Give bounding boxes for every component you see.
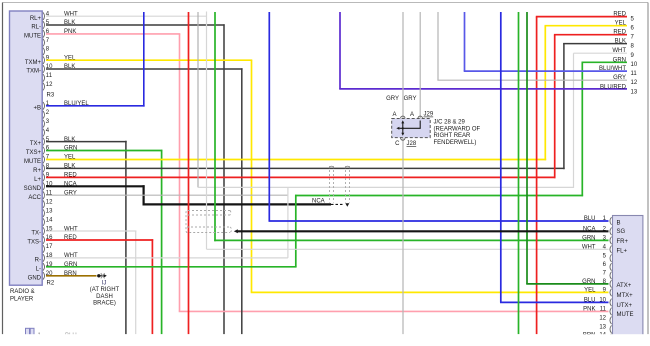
svg-text:GRY: GRY [386, 96, 399, 102]
svg-text:R-: R- [35, 257, 41, 263]
shield dashes upper pair A [329, 166, 331, 203]
right connector pin 14 (BRN) [610, 334, 612, 342]
svg-text:BLU: BLU [584, 216, 596, 222]
svg-text:GRY: GRY [613, 75, 626, 81]
node NCA end arrow [345, 203, 349, 207]
wire BLU/YEL R2-1 +B horizontal [46, 105, 145, 107]
wire WHT vertical x=573.5 [573, 53, 575, 188]
wire BLK R2-5 TX+ horizontal [46, 141, 127, 143]
svg-text:BLU/WHT: BLU/WHT [599, 66, 626, 72]
connector R2 pin 16 TXS- (RED) [43, 236, 45, 244]
wire GRY vertical x=438 [437, 12, 439, 80]
svg-text:R3: R3 [47, 93, 55, 99]
svg-text:13: 13 [599, 324, 606, 330]
wire BLU/YEL vertical to top [143, 12, 145, 107]
wire GRN long horizontal y=240.4 to right pin 3 [214, 239, 608, 241]
connector R2 pin 7 MUTE (YEL) [43, 156, 45, 164]
svg-text:13: 13 [631, 89, 638, 95]
svg-text:11: 11 [631, 71, 638, 77]
wire YEL to top right pin 6 [545, 25, 628, 27]
svg-text:R+: R+ [33, 168, 41, 174]
svg-text:BLU: BLU [584, 297, 596, 303]
wire BLU/RED to top right pin 13 [339, 88, 627, 90]
wire GRN vertical x=295.8 [295, 195, 297, 267]
svg-text:FR+: FR+ [617, 239, 629, 245]
svg-text:GND: GND [28, 275, 42, 281]
svg-text:MTX+: MTX+ [617, 293, 634, 299]
wire GRN R2-6 vertical x=161.6 [161, 150, 163, 335]
svg-text:BLU/RED: BLU/RED [600, 85, 627, 91]
shield twist tick A [329, 166, 333, 168]
svg-text:NCA: NCA [312, 199, 325, 205]
svg-text:10: 10 [631, 62, 638, 68]
wire GRY R2-11 ACC [46, 194, 288, 196]
wire BLK R3-10 TXM- horizontal [46, 68, 243, 70]
svg-text:A: A [392, 112, 396, 118]
wire YEL to right pin 9 [251, 291, 609, 293]
svg-text:14: 14 [46, 217, 53, 223]
right connector pin 12 (empty) [610, 317, 612, 325]
right connector pin 4 (WHT) [610, 246, 612, 254]
svg-text:YEL: YEL [584, 287, 596, 293]
connector R2 pin 15 TX- (WHT) [43, 227, 45, 235]
wire GRN horizontal y=195.5 [295, 195, 583, 197]
connector R3 pin 12 (empty) [43, 83, 45, 91]
svg-text:FL+: FL+ [617, 249, 628, 255]
wire RED R2-16 TXS- horizontal [46, 239, 153, 241]
wire GRY vertical x=420.2 to J/C [419, 12, 421, 119]
wire RED to top right pin 7 [554, 34, 627, 36]
svg-text:TX+: TX+ [30, 141, 42, 147]
wire RED top right pin 5 horizontal [536, 16, 627, 18]
wire NCA dashed stub [331, 203, 344, 205]
svg-text:RIGHT REAR: RIGHT REAR [434, 133, 472, 139]
page right border [647, 3, 649, 335]
connector R2 pin 19 L- (GRN) [43, 263, 45, 271]
svg-text:MUTE: MUTE [24, 159, 41, 165]
svg-text:RL-: RL- [31, 25, 41, 31]
connector R2 pin 6 TXS+ (GRN) [43, 147, 45, 155]
wire BLU vertical x=500.8 [500, 12, 502, 302]
svg-text:RADIO &: RADIO & [10, 289, 35, 295]
wire GRY vertical x=198 from top [197, 12, 199, 187]
connector R3 pin 10 TXM- (BLK) [43, 65, 45, 73]
wire WHT long horizontal y=249.3 to right pin 4 [207, 248, 609, 250]
right connector pin 9 (YEL) [610, 289, 612, 297]
connector R2 pin 20 GND (BRN) [43, 272, 45, 280]
wire WHT long horizontal y=187.4 [198, 186, 574, 188]
svg-text:B: B [617, 221, 621, 227]
right connector pin 1 (BLU) [610, 217, 612, 225]
wire GRN vertical x=215 from top [214, 12, 216, 241]
right connector pin 8 (GRN) [610, 280, 612, 288]
wire RED vertical x=554.7 [554, 35, 556, 179]
connector R2 pin 5 TX+ (BLK) [43, 138, 45, 146]
svg-text:A: A [410, 112, 414, 118]
wire GRY to top right pin 12 [437, 79, 627, 81]
svg-text:J28: J28 [407, 141, 417, 147]
wire RED vertical x=188.5 full height [188, 12, 190, 334]
wire BLU/WHT to top right pin 11 [464, 70, 627, 72]
wire YEL vertical x=251.5 [251, 60, 253, 292]
svg-text:R2: R2 [47, 281, 55, 287]
wire WHT R2-18 R- [46, 257, 288, 259]
svg-text:RED: RED [613, 12, 626, 18]
wire NCA R2-10 SGND horizontal [46, 185, 145, 187]
svg-text:C: C [395, 141, 400, 147]
wire YEL R3-9 TXM+ horizontal [46, 59, 252, 61]
wire BLU to right pin 10 [500, 301, 609, 303]
svg-text:DASH: DASH [96, 294, 113, 300]
connector R3 pin 4 RL+ (WHT) [43, 12, 45, 20]
page left border [2, 3, 4, 335]
svg-text:11: 11 [600, 307, 607, 313]
svg-text:SGND: SGND [24, 186, 42, 192]
svg-text:WHT: WHT [582, 244, 596, 250]
wire RED R2-9 L+ long horizontal [46, 176, 556, 178]
connector R3/R2 radio & player box [10, 11, 43, 285]
svg-text:MUTE: MUTE [24, 33, 41, 39]
ground IJ symbol [97, 274, 100, 277]
svg-text:12: 12 [599, 316, 606, 322]
wire GRN R2-6 TXS+ horizontal [46, 150, 162, 152]
wire BLK R3-5 vertical x=224 [223, 24, 225, 334]
right connector pin 3 (GRN) [610, 237, 612, 245]
shield dashed box lower [186, 211, 230, 233]
svg-text:10: 10 [599, 298, 606, 304]
svg-text:NCA: NCA [583, 226, 596, 232]
crop mask bottom [0, 334, 650, 346]
svg-text:+B: +B [33, 105, 41, 111]
connector R3 pin 8 (empty) [43, 48, 45, 56]
wire BLU vertical x=269.3 [268, 12, 270, 221]
wire RED R2-16 vertical x=152.4 [151, 239, 153, 334]
svg-text:TXS+: TXS+ [26, 150, 42, 156]
svg-text:FENDERWELL): FENDERWELL) [434, 140, 477, 146]
connector R2 pin 10 SGND (NCA) [43, 183, 45, 191]
svg-text:IJ: IJ [102, 280, 107, 286]
connector R2 pin 17 (empty) [43, 245, 45, 253]
wire BLK to top right pin 8 [563, 43, 627, 45]
svg-text:BRACE): BRACE) [93, 301, 116, 307]
connector R2 pin 8 R+ (BLK) [43, 165, 45, 173]
svg-text:(REARWARD OF: (REARWARD OF [434, 127, 481, 133]
svg-text:J/C 28 & 29: J/C 28 & 29 [434, 120, 466, 126]
wire GRN to top right pin 10 [582, 61, 628, 63]
connector R2 pin 3 (empty) [43, 120, 45, 128]
svg-text:RL+: RL+ [30, 16, 42, 22]
connector R3 pin 7 (empty) [43, 39, 45, 47]
svg-text:12: 12 [46, 199, 53, 205]
wire BLU to right pin 1 [269, 220, 609, 222]
shield dashes upper pair B [345, 166, 347, 203]
svg-text:GRN: GRN [582, 235, 595, 241]
svg-text:L+: L+ [34, 177, 41, 183]
connector R2 pin 11 ACC (GRY) [43, 191, 45, 199]
wire BLK R3-10 vertical x=241.8 [241, 68, 243, 334]
connector R3 pin 6 MUTE (PNK) [43, 30, 45, 38]
J/C internal bus vertical [402, 123, 404, 134]
svg-text:J29: J29 [424, 112, 434, 118]
connector R2 pin 4 (empty) [43, 129, 45, 137]
bottom connector fragment box [26, 328, 30, 337]
right connector pin 11 (PNK) [610, 308, 612, 316]
wire WHT R2-15 vertical x=135.7 [135, 231, 137, 334]
wire WHT R2-15 TX- horizontal [46, 230, 136, 232]
shield twist tick B [345, 166, 349, 168]
node NCA left arrow [234, 229, 238, 233]
connector R2 pin 9 L+ (RED) [43, 174, 45, 182]
right connector pin 6 (empty) [610, 263, 612, 271]
svg-text:TXM-: TXM- [26, 69, 41, 75]
svg-text:ATX+: ATX+ [617, 283, 632, 289]
connector R2 pin 2 (empty) [43, 111, 45, 119]
wire NCA to right pin 2 [238, 230, 609, 232]
svg-text:WHT: WHT [612, 48, 626, 54]
connector R2 pin 1 +B (BLU/YEL) [43, 102, 45, 110]
right connector pin 13 (empty) [610, 325, 612, 333]
wire WHT to top right pin 9 [574, 52, 628, 54]
svg-text:TXS-: TXS- [27, 240, 41, 246]
connector R2 pin 12 (empty) [43, 200, 45, 208]
svg-text:ACC: ACC [28, 195, 41, 201]
svg-text:GRN: GRN [613, 57, 626, 63]
connector R3 pin 11 (empty) [43, 74, 45, 82]
page top border [3, 2, 649, 4]
right connector pin 2 (NCA) [610, 228, 612, 236]
svg-text:L-: L- [36, 266, 41, 272]
wire BLK R3-5 RL- horizontal [46, 24, 225, 26]
wire BLK R2-8 R+ long horizontal [46, 167, 565, 169]
wire GRN vertical x=582.3 [581, 62, 583, 196]
connector R3 pin 9 TXM+ (YEL) [43, 56, 45, 64]
wire PNK R3-6 MUTE horizontal [46, 33, 180, 35]
connector R2 pin 14 (empty) [43, 218, 45, 226]
wire GRN R2-19 L- horizontal [46, 266, 297, 268]
wire YEL vertical x=545.3 [544, 26, 546, 161]
wire WHT vertical x=206.5 from top [206, 12, 208, 250]
svg-text:TXM+: TXM+ [25, 60, 42, 66]
connector R3 pin 5 RL- (BLK) [43, 21, 45, 29]
connector R2 pin 18 R- (WHT) [43, 254, 45, 262]
svg-text:RED: RED [613, 30, 626, 36]
wire NCA long horizontal y=204.4 [143, 203, 332, 205]
wire BLK vertical x=563.9 [563, 44, 565, 170]
wire YEL R2-7 MUTE long horizontal [46, 159, 546, 161]
wire BLU/RED vertical x=340 [339, 12, 341, 89]
right connector box [613, 216, 643, 342]
svg-text:12: 12 [631, 80, 638, 86]
right connector pin 10 (BLU) [610, 299, 612, 307]
wire WHT R3-4 RL+ [46, 15, 207, 17]
svg-text:TX-: TX- [31, 231, 41, 237]
svg-text:11: 11 [46, 73, 53, 79]
wire GRN dark vertical x=527 [526, 12, 528, 284]
svg-text:GRN: GRN [582, 279, 595, 285]
svg-text:SG: SG [617, 229, 626, 235]
crop mask top [0, 0, 650, 2]
svg-text:12: 12 [46, 82, 53, 88]
svg-text:MUTE: MUTE [617, 312, 634, 318]
svg-text:GRY: GRY [404, 96, 417, 102]
wire BLK R2-5 vertical x=125.9 [125, 141, 127, 334]
wire RED vertical x=536.6 full height [536, 17, 538, 335]
connector R2 pin 13 (empty) [43, 209, 45, 217]
right connector pin 7 (empty) [610, 272, 612, 280]
right connector pin 5 (empty) [610, 254, 612, 262]
junction connector J/C 28-29 box [392, 119, 431, 138]
wire GRN vertical x=518.5 full height [518, 12, 520, 334]
J/C internal branch from A2 [400, 121, 421, 129]
svg-text:BLK: BLK [615, 39, 626, 45]
svg-text:(AT RIGHT: (AT RIGHT [90, 287, 120, 293]
wire GRY below J/C x=403 [402, 138, 404, 335]
wire GRN to right pin 8 [526, 283, 608, 285]
svg-text:PNK: PNK [583, 306, 595, 312]
wire GRY vertical x=403 to J/C [402, 12, 404, 119]
wire NCA vertical x=143.6 [143, 185, 145, 204]
svg-text:17: 17 [46, 244, 53, 250]
svg-text:PLAYER: PLAYER [10, 297, 34, 303]
wire PNK to right pin 11 [179, 310, 609, 312]
svg-text:YEL: YEL [615, 21, 627, 27]
wire BRN R2-20 GND [46, 275, 97, 277]
wire PNK vertical x=179.5 [179, 34, 181, 312]
svg-text:13: 13 [46, 208, 53, 214]
wire BLU/WHT vertical x=464.5 [464, 12, 466, 71]
wire WHT branch vertical x=287.9 [287, 187, 289, 258]
svg-text:UTX+: UTX+ [617, 303, 633, 309]
